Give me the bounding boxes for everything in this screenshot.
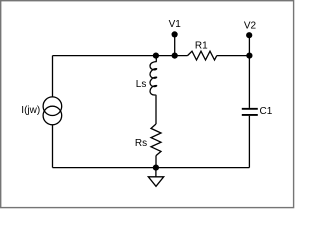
resistor Rs: [135, 124, 161, 168]
inductor Ls: [136, 56, 157, 124]
svg-text:I(jw): I(jw): [21, 105, 40, 116]
wire left vertical lower (source to bottom wire): [52, 125, 54, 168]
wire right vertical upper (V2 corner to C1): [248, 56, 250, 108]
svg-text:R1: R1: [195, 40, 208, 51]
resistor R1: [188, 40, 217, 60]
junction dot (Ls top on V1 net): [153, 53, 159, 59]
ground: [148, 168, 163, 187]
svg-text:V2: V2: [244, 21, 257, 32]
wire top right (R1 to V2 corner): [217, 55, 250, 57]
capacitor C1: [242, 106, 273, 117]
node V2 terminal dot: [244, 21, 257, 39]
junction dot (V2 corner): [246, 53, 252, 59]
junction dot (ground / Rs bottom): [153, 165, 159, 171]
wire left vertical upper (top wire to source): [52, 56, 54, 97]
wire right vertical lower (C1 to bottom wire): [248, 116, 250, 168]
svg-text:V1: V1: [169, 19, 182, 30]
node V1 terminal dot: [169, 19, 182, 37]
wire bottom (ground net): [53, 167, 250, 169]
svg-text:C1: C1: [260, 106, 273, 117]
svg-text:Rs: Rs: [135, 138, 147, 149]
wire top left (source top to R1, node V1 net): [53, 55, 188, 57]
wire V2 stub: [248, 35, 250, 55]
svg-text:Ls: Ls: [136, 79, 147, 90]
current source I(jw): [21, 97, 61, 125]
wire V1 stub: [174, 34, 176, 55]
junction dot (V1 stub on top wire): [172, 53, 178, 59]
